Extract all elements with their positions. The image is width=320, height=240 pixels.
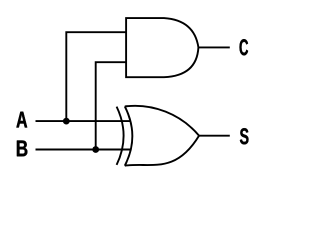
XOR gate (117, 106, 199, 166)
wire XOR output (199, 135, 230, 137)
wire A to AND gate top input (66, 32, 126, 121)
input A label (16, 112, 27, 128)
wire A input (36, 120, 131, 122)
output S label (240, 128, 249, 144)
AND gate (126, 18, 198, 77)
output C label (240, 39, 249, 55)
input B label (17, 141, 27, 157)
junction dot A (63, 118, 70, 125)
wire B to AND gate bottom input (96, 62, 126, 149)
wire AND output (198, 46, 229, 48)
wire B input (36, 149, 131, 151)
junction dot B (92, 146, 99, 153)
